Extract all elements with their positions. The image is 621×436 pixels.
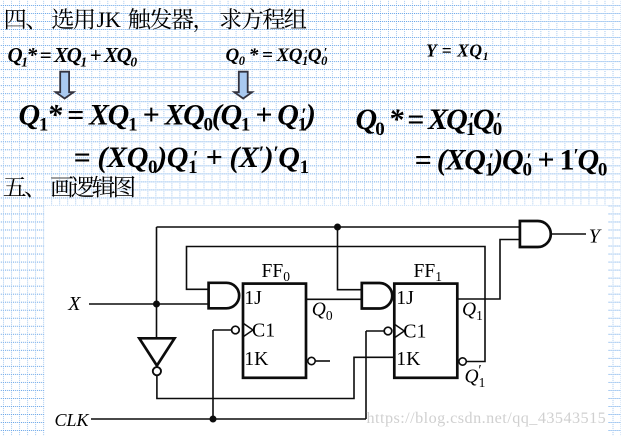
title row 1: 四、选用JK触发器，求方程组 (6, 8, 306, 32)
junction X (153, 301, 160, 308)
svg-text:Q1* = XQ1 + XQ0(Q1 + Q1′): Q1* = XQ1 + XQ0(Q1 + Q1′) (19, 98, 315, 135)
white circuit panel (45, 206, 609, 436)
wire Q0' stub (316, 360, 331, 362)
inverter triangle (139, 338, 174, 365)
wire inverter output X' to FF1 1K (157, 357, 394, 398)
svg-text:Y = XQ1: Y = XQ1 (426, 41, 489, 64)
svg-text:https://blog.csdn.net/qq_43543: https://blog.csdn.net/qq_43543515 (367, 409, 607, 427)
wire top X rail (157, 226, 520, 228)
wire X drop to AND2 (338, 227, 362, 290)
FF0 clock triangle (243, 323, 253, 336)
FF1 Q1' bubble (459, 358, 466, 365)
JK flip-flop FF0 box (243, 284, 306, 378)
FF0 Q' bubble (308, 357, 315, 364)
svg-text:Y: Y (589, 225, 602, 247)
wire CLK riser FF0 (213, 330, 232, 419)
svg-text:1K: 1K (244, 348, 269, 370)
junction CLK (210, 416, 217, 423)
svg-text:CLK: CLK (55, 410, 90, 430)
blue arrow 2 (234, 72, 252, 99)
wire Q1 to Y gate (457, 240, 520, 300)
svg-text:X: X (67, 293, 81, 315)
inverter bubble (153, 367, 161, 375)
svg-text:1J: 1J (244, 287, 262, 309)
FF1 clock bubble (384, 327, 392, 335)
AND gate G1 (J0 = X Q1') (209, 283, 240, 309)
wire CLK riser FF1 (366, 331, 384, 419)
AND gate G3 (Y = X Q1) (520, 221, 551, 247)
wire X riser (156, 227, 158, 338)
svg-text:C1: C1 (403, 320, 426, 342)
svg-text:1J: 1J (396, 287, 414, 309)
svg-text:= (XQ1′)Q0′ + 1′Q0: = (XQ1′)Q0′ + 1′Q0 (415, 144, 607, 181)
FF1 clock triangle (395, 324, 405, 337)
FF0 clock bubble (232, 326, 240, 334)
wire CLK (91, 418, 366, 420)
AND gate G2 (J1 = X Q0) (362, 283, 392, 309)
wire Q1' feedback: bubble to AND1 (187, 247, 486, 362)
svg-text:Q1* = XQ1 + XQ0: Q1* = XQ1 + XQ0 (8, 43, 138, 69)
wire Y output (551, 233, 586, 235)
blue arrow 1 (56, 72, 74, 99)
svg-text:1K: 1K (396, 348, 421, 370)
JK flip-flop FF1 box (394, 284, 457, 378)
wire Q0 to AND2 (306, 298, 362, 300)
svg-text:JK: JK (97, 7, 122, 32)
wire X input (89, 303, 209, 305)
svg-text:C1: C1 (252, 319, 275, 341)
title row 2: 五、画逻辑图 (4, 176, 135, 198)
junction top rail (334, 224, 341, 231)
